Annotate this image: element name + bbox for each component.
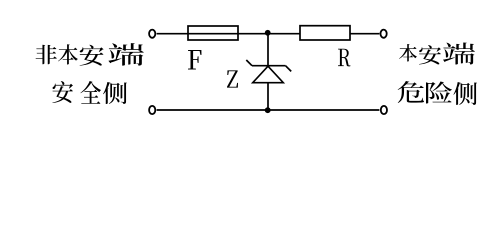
label Z [227,70,238,87]
zener bar right bend [286,66,292,72]
terminal circle top-left [149,30,155,38]
text 端 [443,43,475,65]
text 非 [36,45,57,64]
wire bottom rail [157,109,380,111]
terminal circle bottom-left [149,106,155,114]
text 全 [81,81,102,104]
fuse F (rectangle with wire through) [188,26,238,40]
text 本 [399,44,417,62]
text 安 [52,81,73,103]
text 侧 [453,82,477,105]
junction node top (F-R-Z) [265,30,271,36]
text 险 [426,81,452,103]
resistor R (rectangle body) [300,26,350,40]
text 安 [419,45,441,64]
wire top rail [157,33,380,35]
zener diode triangle (anode) [253,66,284,83]
text 本 [58,44,78,64]
text 危 [398,81,424,103]
wire zener bottom segment [267,83,269,110]
terminal circle top-right [381,30,387,38]
label R [338,49,350,67]
text 侧 [103,82,127,104]
terminal circle bottom-right [381,106,387,114]
junction node bottom (Z-rail) [265,107,271,113]
zener diode Z cathode bar [252,65,286,67]
label F [188,50,202,69]
text 安 [80,45,104,66]
zener bar left bend [246,60,252,66]
wire zener top segment [267,34,269,66]
text 端 [108,43,143,66]
